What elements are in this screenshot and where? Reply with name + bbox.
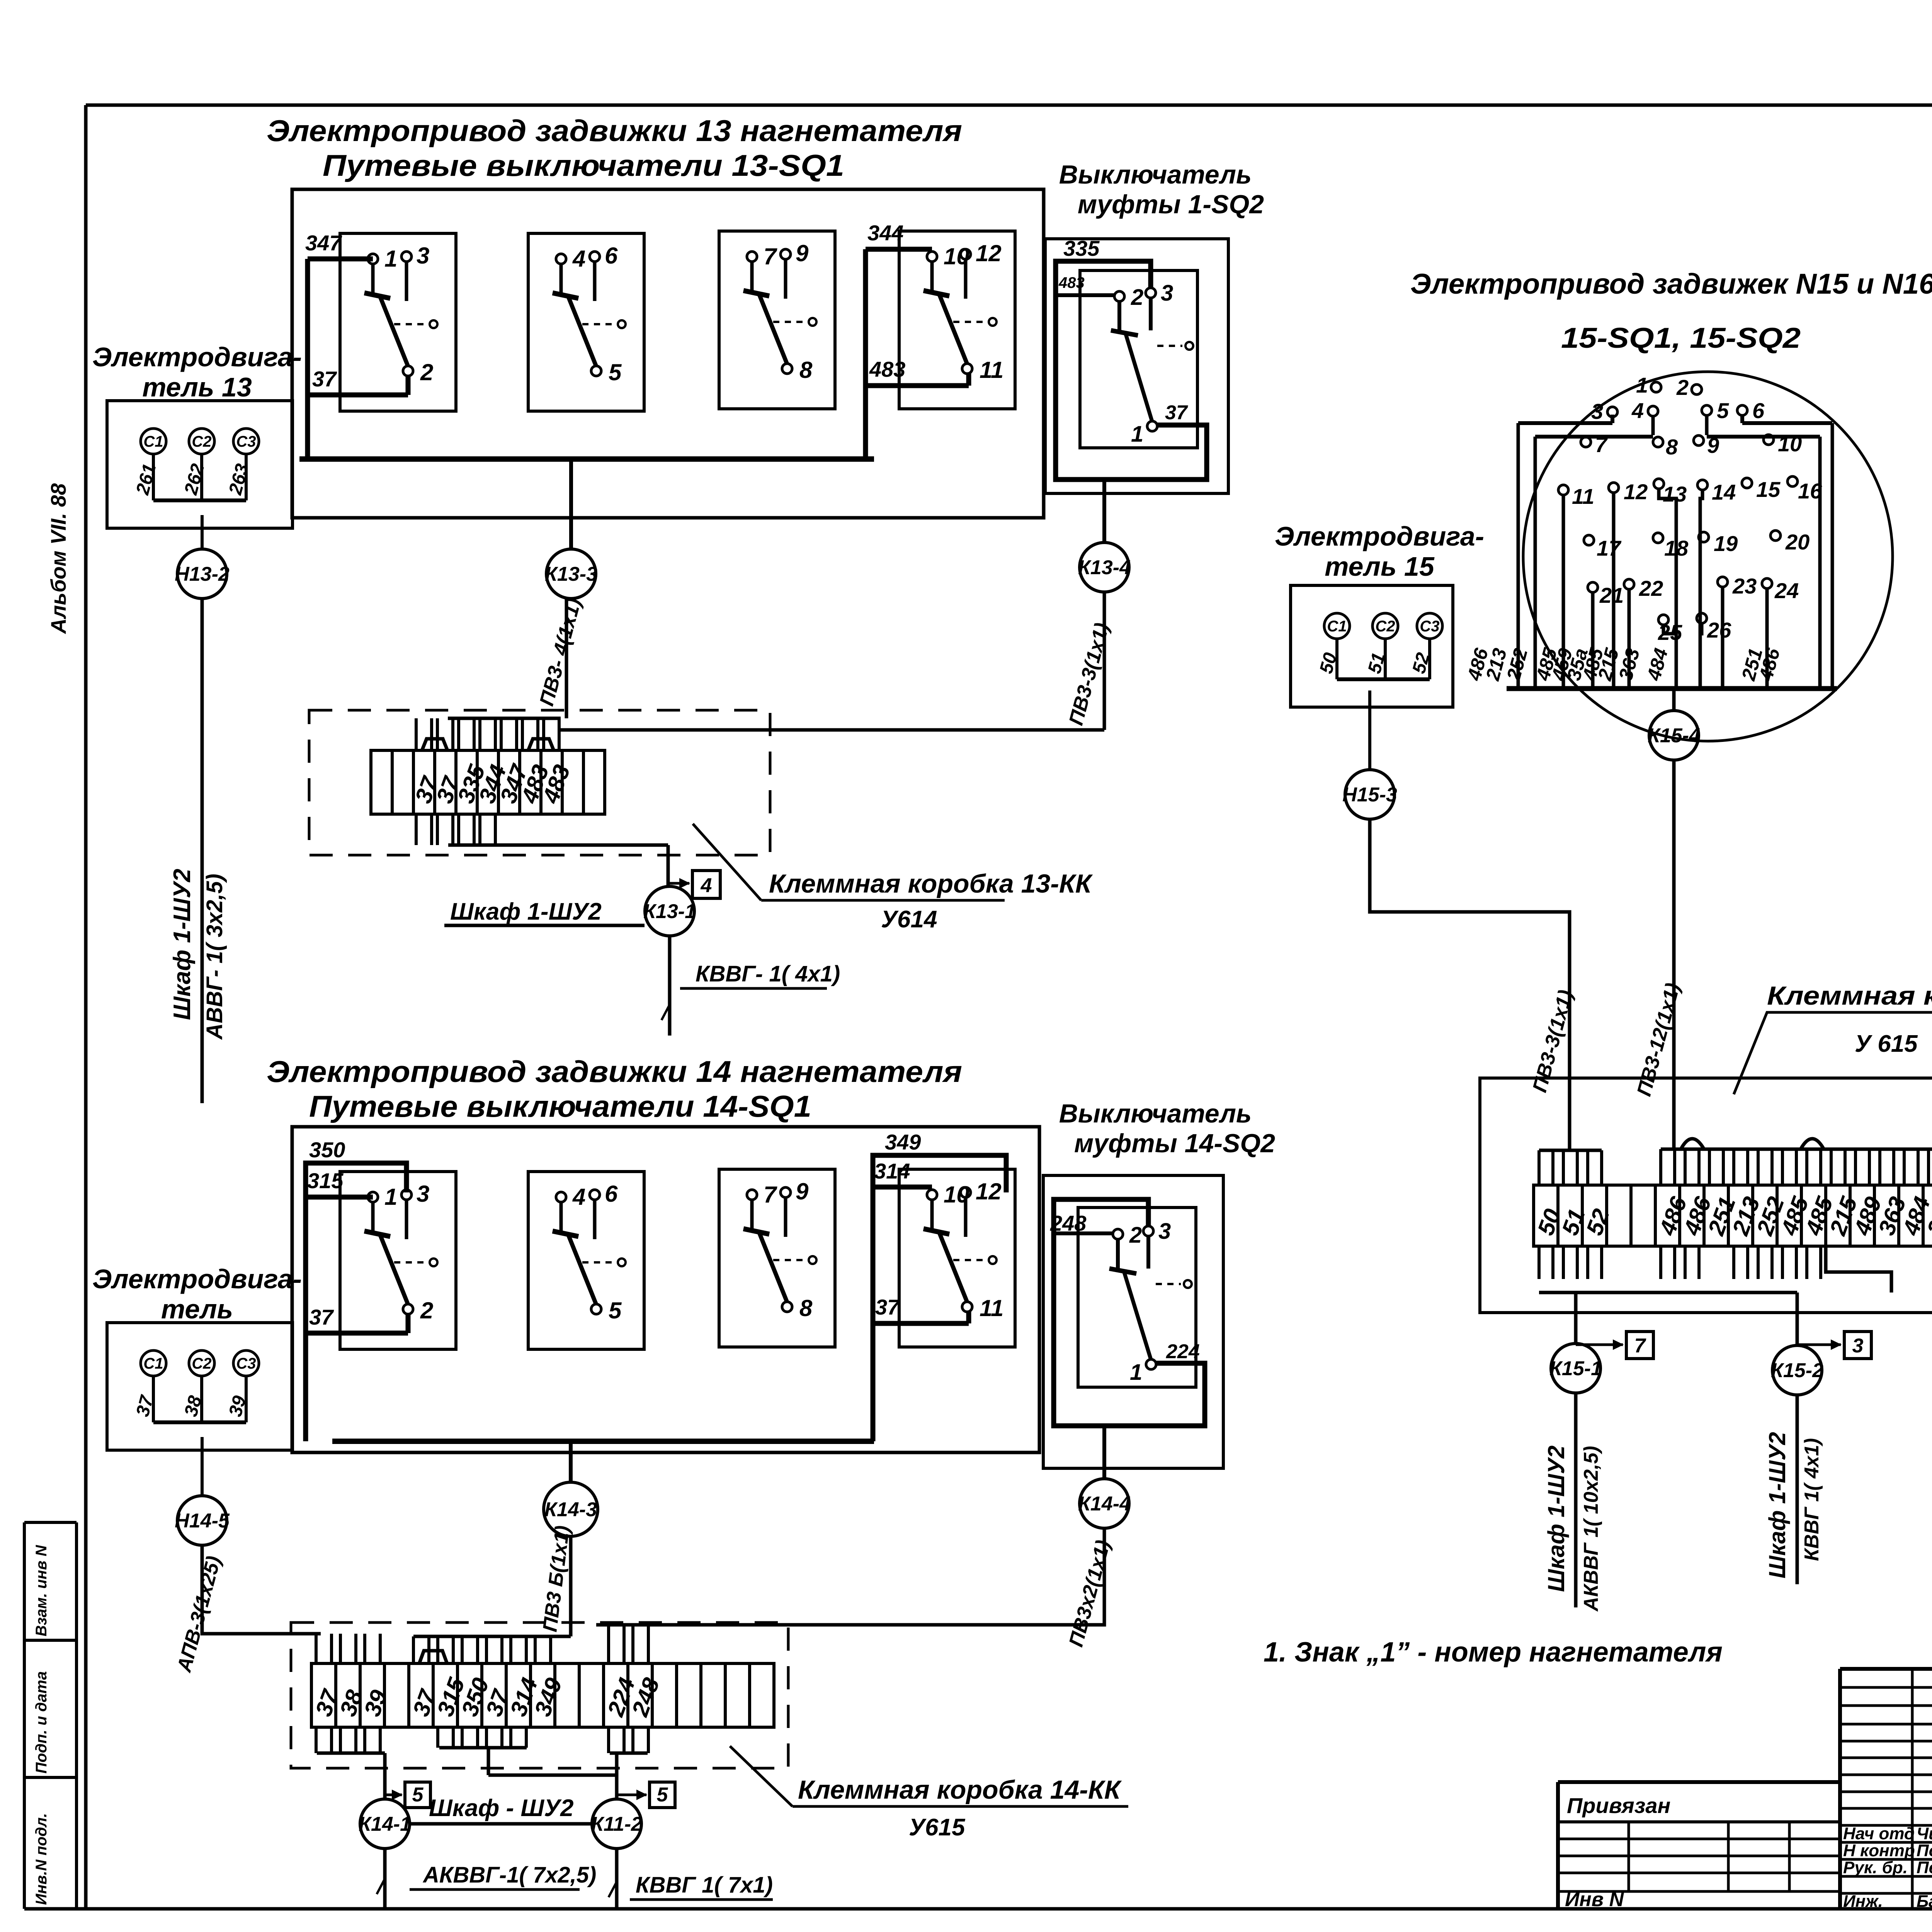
box 14-SQ1 — [292, 1127, 1039, 1452]
switch contact box pins 4/6/5 — [528, 1172, 644, 1349]
left margin title boxes — [24, 1521, 77, 1524]
wire 344 — [866, 247, 932, 252]
svg-text:К15-4: К15-4 — [1648, 724, 1700, 747]
svg-text:4: 4 — [572, 246, 585, 272]
svg-text:Электродвига-: Электродвига- — [92, 1264, 302, 1294]
svg-text:23: 23 — [1732, 574, 1757, 598]
svg-text:483: 483 — [869, 357, 905, 381]
wire 347 — [308, 257, 373, 262]
cable marker circle К14-3 — [544, 1482, 598, 1536]
svg-text:5: 5 — [657, 1784, 668, 1806]
switch contact box pins 4/6/5 — [528, 233, 644, 411]
cable marker circle К15-1 — [1551, 1344, 1600, 1393]
switch contact box pins 1/3/2 — [340, 233, 456, 411]
reference box 7 — [1626, 1332, 1653, 1359]
svg-text:12: 12 — [976, 240, 1002, 266]
svg-text:8: 8 — [1666, 435, 1678, 459]
left attach table — [1558, 1780, 1840, 1784]
wire drop to К13-3 — [569, 459, 573, 549]
motor box — [107, 1323, 293, 1450]
strip 13 entries below — [415, 814, 418, 845]
svg-text:3: 3 — [1852, 1335, 1864, 1357]
svg-text:4: 4 — [701, 874, 712, 897]
terminal strip — [371, 750, 392, 814]
SQ2-1 pins — [1114, 291, 1124, 301]
svg-text:АКВВГ-1( 7х2,5): АКВВГ-1( 7х2,5) — [422, 1862, 596, 1888]
svg-text:Шкаф - ШУ2: Шкаф - ШУ2 — [429, 1795, 573, 1821]
svg-text:К13-4: К13-4 — [1078, 556, 1131, 579]
svg-text:К15-1: К15-1 — [1549, 1357, 1602, 1380]
cable АКВВГ-1(7х2,5) — [383, 1849, 387, 1909]
wire drop to К14-4 — [1102, 1426, 1106, 1479]
connector bottom bus — [1507, 686, 1837, 691]
leader 15-КК — [1734, 1012, 1932, 1094]
cable ПВ3-12(1х1) К15-4 — [1672, 760, 1676, 1149]
svg-text:1: 1 — [1130, 1360, 1142, 1385]
svg-text:Электродвига-: Электродвига- — [92, 342, 302, 372]
svg-text:22: 22 — [1639, 576, 1663, 600]
switch contact box pins 10/12/11 — [899, 1169, 1015, 1347]
svg-text:муфты 14-SQ2: муфты 14-SQ2 — [1074, 1129, 1275, 1158]
connector inner box (pins 4/5 join it) — [1535, 435, 1653, 439]
svg-text:11: 11 — [980, 357, 1003, 383]
svg-text:2: 2 — [420, 1298, 433, 1323]
svg-text:347: 347 — [305, 231, 342, 255]
svg-text:3: 3 — [1161, 281, 1173, 306]
SQ2-14 contact — [1116, 1238, 1120, 1271]
svg-text:Альбом VII. 88: Альбом VII. 88 — [46, 483, 70, 634]
leader Клеммная коробка 13-КК — [693, 824, 761, 900]
terminal strip — [1534, 1185, 1558, 1246]
svg-text:37: 37 — [312, 367, 337, 391]
svg-text:20: 20 — [1785, 530, 1810, 554]
svg-text:Путевые выключатели 13-SQ1: Путевые выключатели 13-SQ1 — [323, 148, 844, 182]
svg-text:5: 5 — [609, 1298, 622, 1323]
reference box 3 — [1844, 1332, 1871, 1359]
svg-text:24: 24 — [1774, 578, 1799, 603]
svg-text:Чижиков: Чижиков — [1917, 1824, 1932, 1843]
svg-text:К14-1: К14-1 — [359, 1813, 411, 1835]
svg-text:3: 3 — [417, 1181, 429, 1207]
svg-text:5: 5 — [609, 359, 622, 385]
svg-text:12: 12 — [1624, 480, 1648, 504]
svg-text:У615: У615 — [909, 1814, 966, 1841]
revision table — [1838, 1669, 1842, 1909]
box муфты 14-SQ2 outer — [1043, 1175, 1223, 1468]
svg-text:350: 350 — [309, 1138, 345, 1162]
svg-text:1. Знак „1” - номер нагне: 1. Знак „1” - номер нагнетателя — [1264, 1637, 1723, 1668]
svg-text:Шкаф 1-ШУ2: Шкаф 1-ШУ2 — [1764, 1432, 1790, 1578]
svg-text:Н контр: Н контр — [1843, 1841, 1915, 1860]
wire below strip 14 — [317, 1752, 385, 1755]
svg-text:Путевые выключатели 14-SQ1: Путевые выключатели 14-SQ1 — [309, 1089, 811, 1123]
drop to К15-2 — [1826, 1246, 1891, 1293]
svg-text:Выключатель: Выключатель — [1059, 160, 1252, 189]
cable marker circle К11-2 — [592, 1799, 641, 1849]
wire С2 down to Н13-2 — [201, 515, 204, 549]
box муфты 1-SQ2 inner — [1080, 270, 1197, 448]
strip 15 entries above — [1537, 1150, 1541, 1185]
svg-text:7: 7 — [1634, 1335, 1646, 1357]
cable marker circle Н15-3 — [1345, 770, 1395, 819]
reference box 5 — [650, 1782, 675, 1808]
svg-text:10: 10 — [1778, 432, 1802, 456]
svg-text:Электропривод задвижки 14 н: Электропривод задвижки 14 нагнетателя — [267, 1054, 962, 1088]
svg-text:тель 15: тель 15 — [1325, 551, 1435, 582]
svg-text:37: 37 — [875, 1295, 900, 1319]
dashed box Клеммная коробка 14-КК — [291, 1622, 788, 1768]
svg-text:7: 7 — [764, 1182, 777, 1207]
svg-text:15-SQ1, 15-SQ2: 15-SQ1, 15-SQ2 — [1561, 322, 1801, 354]
wire 315 — [306, 1195, 373, 1200]
svg-text:4: 4 — [1631, 398, 1644, 423]
svg-text:Подп. и дата: Подп. и дата — [33, 1671, 50, 1774]
svg-text:9: 9 — [796, 240, 809, 266]
svg-text:Рук. бр.: Рук. бр. — [1843, 1858, 1908, 1877]
svg-text:Клеммная коробка 15-КК: Клеммная коробка 15-КК — [1767, 981, 1932, 1010]
svg-text:224: 224 — [1166, 1340, 1200, 1363]
cable ПВ3х2(1х1) from К14-4 — [596, 1528, 1104, 1625]
switch contact box pins 7/9/8 — [719, 1169, 835, 1347]
svg-text:Шкаф 1-ШУ2: Шкаф 1-ШУ2 — [450, 898, 602, 925]
box муфты 14-SQ2 inner — [1078, 1207, 1196, 1387]
svg-text:6: 6 — [605, 1181, 618, 1207]
svg-text:Базинян: Базинян — [1917, 1892, 1932, 1911]
svg-text:5: 5 — [412, 1784, 424, 1806]
svg-text:335: 335 — [1063, 236, 1100, 260]
cable ПВ3-3(1х1) from К13-4 — [1103, 592, 1106, 730]
switch contact box pins 7/9/8 — [719, 231, 835, 409]
svg-text:С3: С3 — [236, 433, 256, 450]
svg-text:3: 3 — [1158, 1219, 1171, 1244]
svg-text:К11-2: К11-2 — [591, 1813, 642, 1835]
cable Шкаф 1-ШУ2 / КВВГ 1(4х1) — [1796, 1395, 1799, 1584]
svg-text:6: 6 — [1752, 398, 1765, 423]
cable Шкаф 1-ШУ2 / АВВГ-1(3х2,5) — [201, 599, 204, 1103]
svg-text:С1: С1 — [143, 1355, 163, 1372]
svg-text:Электропривод задвижек N15: Электропривод задвижек N15 и N16 нагнета… — [1410, 268, 1932, 300]
connector circle — [1523, 372, 1893, 741]
wire 37 — [308, 393, 408, 398]
svg-text:7: 7 — [1595, 432, 1608, 457]
cable marker circle Н14-5 — [177, 1496, 227, 1545]
svg-text:Инв N: Инв N — [1565, 1888, 1624, 1911]
cable marker circle К13-1 — [645, 886, 694, 936]
svg-text:Электропривод задвижки 13: Электропривод задвижки 13 нагнетателя — [267, 114, 962, 148]
SQ2-1 contact — [1117, 301, 1121, 333]
cable marker circle Н13-2 — [177, 549, 227, 599]
svg-text:2: 2 — [420, 359, 433, 385]
cable АПВ-3(1х25) — [202, 1545, 321, 1634]
svg-text:344: 344 — [867, 221, 903, 245]
reference box 5 — [405, 1782, 430, 1808]
svg-text:С2: С2 — [192, 1355, 211, 1372]
strip 14 entries below — [315, 1727, 318, 1753]
svg-text:С2: С2 — [192, 433, 211, 450]
svg-text:К14-3: К14-3 — [544, 1498, 597, 1521]
cable marker circle К15-4 — [1649, 711, 1699, 760]
cable marker circle К13-4 — [1080, 543, 1129, 592]
wire 37 (14-4) — [873, 1321, 969, 1326]
svg-text:С1: С1 — [143, 433, 163, 450]
svg-text:Н14-5: Н14-5 — [175, 1510, 230, 1532]
wire vertical 14-4 — [871, 1183, 876, 1441]
strip 15 entries below — [1537, 1246, 1541, 1279]
svg-text:Инж.: Инж. — [1843, 1892, 1883, 1911]
connector pins — [1651, 382, 1661, 392]
cable marker circle К13-3 — [546, 549, 596, 599]
wire 483 — [866, 383, 969, 388]
svg-text:КВВГ- 1( 4х1): КВВГ- 1( 4х1) — [696, 961, 840, 986]
svg-text:483: 483 — [1058, 274, 1085, 291]
cable КВВГ 1(7х1) — [615, 1849, 619, 1909]
wire below strip to К13-1 — [448, 844, 668, 847]
svg-text:Выключатель: Выключатель — [1059, 1099, 1252, 1128]
svg-text:Клеммная коробка 14-КК: Клеммная коробка 14-КК — [798, 1775, 1122, 1804]
drop to K circle — [1672, 689, 1676, 711]
svg-text:С1: С1 — [1327, 618, 1347, 635]
terminal strip — [311, 1663, 336, 1727]
leader Клеммная коробка 14-КК — [730, 1746, 793, 1806]
svg-text:6: 6 — [605, 243, 618, 269]
svg-text:15: 15 — [1756, 477, 1781, 502]
svg-text:8: 8 — [799, 1295, 813, 1321]
motor box — [107, 401, 293, 528]
box муфты 1-SQ2 outer — [1045, 239, 1228, 493]
svg-text:3: 3 — [1591, 399, 1603, 423]
svg-text:11: 11 — [1572, 484, 1594, 509]
svg-text:349: 349 — [885, 1130, 921, 1154]
wire to pin 2 (14) — [1054, 1231, 1114, 1235]
connector wires — [1611, 417, 1614, 420]
svg-text:7: 7 — [764, 243, 777, 269]
SQ2-14 pins — [1113, 1229, 1123, 1239]
switch contact box pins 10/12/11 — [899, 231, 1015, 409]
cable Шкаф 1-ШУ2 / АКВВГ1(10х2,5) — [1574, 1393, 1578, 1607]
svg-text:1: 1 — [1131, 422, 1143, 447]
svg-text:314: 314 — [874, 1159, 910, 1183]
svg-text:3: 3 — [417, 243, 429, 269]
wire left vertical — [305, 259, 310, 459]
strip 13 entries above — [415, 718, 418, 750]
wire 344/483 vertical — [863, 249, 868, 459]
wire 314 — [873, 1185, 932, 1190]
connector outer box — [1518, 421, 1612, 425]
svg-text:КВВГ 1( 7х1): КВВГ 1( 7х1) — [636, 1872, 773, 1898]
box Клеммная коробка 15-КК — [1480, 1078, 1932, 1313]
svg-text:У614: У614 — [881, 906, 937, 933]
svg-text:Клеммная коробка 13-КК: Клеммная коробка 13-КК — [769, 869, 1093, 898]
drop to К15-1 — [1574, 1293, 1578, 1344]
reference box 4 — [692, 871, 720, 898]
svg-text:21: 21 — [1599, 583, 1624, 607]
cable КВВГ-1(4х1) below К13-1 — [668, 936, 672, 1036]
switch contact box pins 1/3/2 — [340, 1172, 456, 1349]
svg-text:19: 19 — [1714, 531, 1738, 556]
svg-text:1: 1 — [384, 246, 397, 272]
svg-text:2: 2 — [1676, 375, 1689, 400]
svg-text:37: 37 — [309, 1305, 334, 1329]
drawing sheet frame — [86, 104, 1932, 107]
wire 37 (14) — [306, 1331, 408, 1336]
bus wire 13 — [299, 456, 874, 462]
svg-text:37: 37 — [1165, 401, 1188, 424]
svg-text:2: 2 — [1129, 1223, 1142, 1248]
svg-text:Н15-3: Н15-3 — [1342, 784, 1397, 806]
cable ПВ3 Б(1х1) — [569, 1536, 573, 1636]
svg-text:муфты 1-SQ2: муфты 1-SQ2 — [1078, 190, 1264, 219]
svg-text:8: 8 — [799, 357, 813, 383]
svg-text:Электродвига-: Электродвига- — [1275, 521, 1484, 551]
svg-text:14: 14 — [1712, 480, 1736, 504]
svg-text:315: 315 — [307, 1168, 344, 1193]
cable marker circle К14-4 — [1080, 1479, 1129, 1528]
svg-text:11: 11 — [980, 1295, 1003, 1321]
cable ПВ3-4(1х1) from К13-3 — [565, 599, 568, 718]
svg-text:Петроченко: Петроченко — [1917, 1858, 1932, 1877]
box 13-SQ1 — [292, 189, 1044, 518]
svg-text:У 615: У 615 — [1855, 1031, 1918, 1057]
svg-text:17: 17 — [1597, 536, 1622, 560]
svg-text:16: 16 — [1798, 479, 1822, 503]
svg-text:С2: С2 — [1375, 618, 1395, 635]
svg-text:КВВГ 1( 4х1): КВВГ 1( 4х1) — [1801, 1438, 1823, 1561]
svg-text:Поздняково: Поздняково — [1917, 1841, 1932, 1860]
svg-text:Шкаф 1-ШУ2: Шкаф 1-ШУ2 — [169, 869, 196, 1020]
svg-text:Привязан: Привязан — [1567, 1793, 1670, 1818]
svg-text:2: 2 — [1131, 285, 1143, 310]
wire С2 down to Н14-5 — [201, 1437, 204, 1496]
cable marker circle К14-1 — [360, 1799, 410, 1849]
svg-text:1: 1 — [384, 1184, 397, 1210]
wire drop to К13-4 — [1102, 480, 1106, 543]
wire between К14-1 and К11-2 — [410, 1822, 592, 1826]
svg-text:4: 4 — [572, 1184, 585, 1210]
svg-text:Н13-2: Н13-2 — [175, 563, 230, 585]
strip 14 entries above — [315, 1634, 318, 1663]
svg-text:С3: С3 — [1420, 618, 1439, 635]
svg-text:тель 13: тель 13 — [142, 372, 252, 402]
svg-text:АВВГ- 1( 3х2,5): АВВГ- 1( 3х2,5) — [202, 874, 227, 1040]
svg-text:5: 5 — [1717, 398, 1729, 423]
svg-text:С3: С3 — [236, 1355, 256, 1372]
svg-text:12: 12 — [976, 1179, 1002, 1204]
svg-text:К15-2: К15-2 — [1771, 1359, 1823, 1382]
motor box — [1291, 585, 1453, 707]
svg-text:1: 1 — [1636, 373, 1648, 397]
wire drop to К14-3 — [569, 1441, 573, 1484]
cable marker circle К15-2 — [1772, 1345, 1822, 1395]
svg-text:26: 26 — [1707, 618, 1731, 642]
svg-text:Шкаф 1-ШУ2: Шкаф 1-ШУ2 — [1543, 1446, 1569, 1592]
svg-text:АКВВГ 1( 10х2,5): АКВВГ 1( 10х2,5) — [1580, 1446, 1602, 1612]
svg-text:9: 9 — [1707, 433, 1719, 457]
svg-text:Взам. инв N: Взам. инв N — [33, 1545, 50, 1636]
svg-text:К13-1: К13-1 — [643, 900, 696, 923]
svg-text:9: 9 — [796, 1179, 809, 1204]
svg-text:Нач отд: Нач отд — [1843, 1824, 1915, 1843]
svg-text:К13-3: К13-3 — [545, 563, 597, 585]
cable ПВ3-3(1х1) motor15 — [1370, 819, 1570, 1150]
svg-text:К14-4: К14-4 — [1078, 1493, 1131, 1515]
svg-text:Инв.N подл.: Инв.N подл. — [33, 1813, 50, 1905]
svg-text:тель: тель — [161, 1294, 233, 1324]
dashed box Клеммная коробка 13-КК — [309, 710, 770, 855]
left vertical 14 — [303, 1194, 308, 1441]
bus wire 14 — [332, 1439, 874, 1444]
